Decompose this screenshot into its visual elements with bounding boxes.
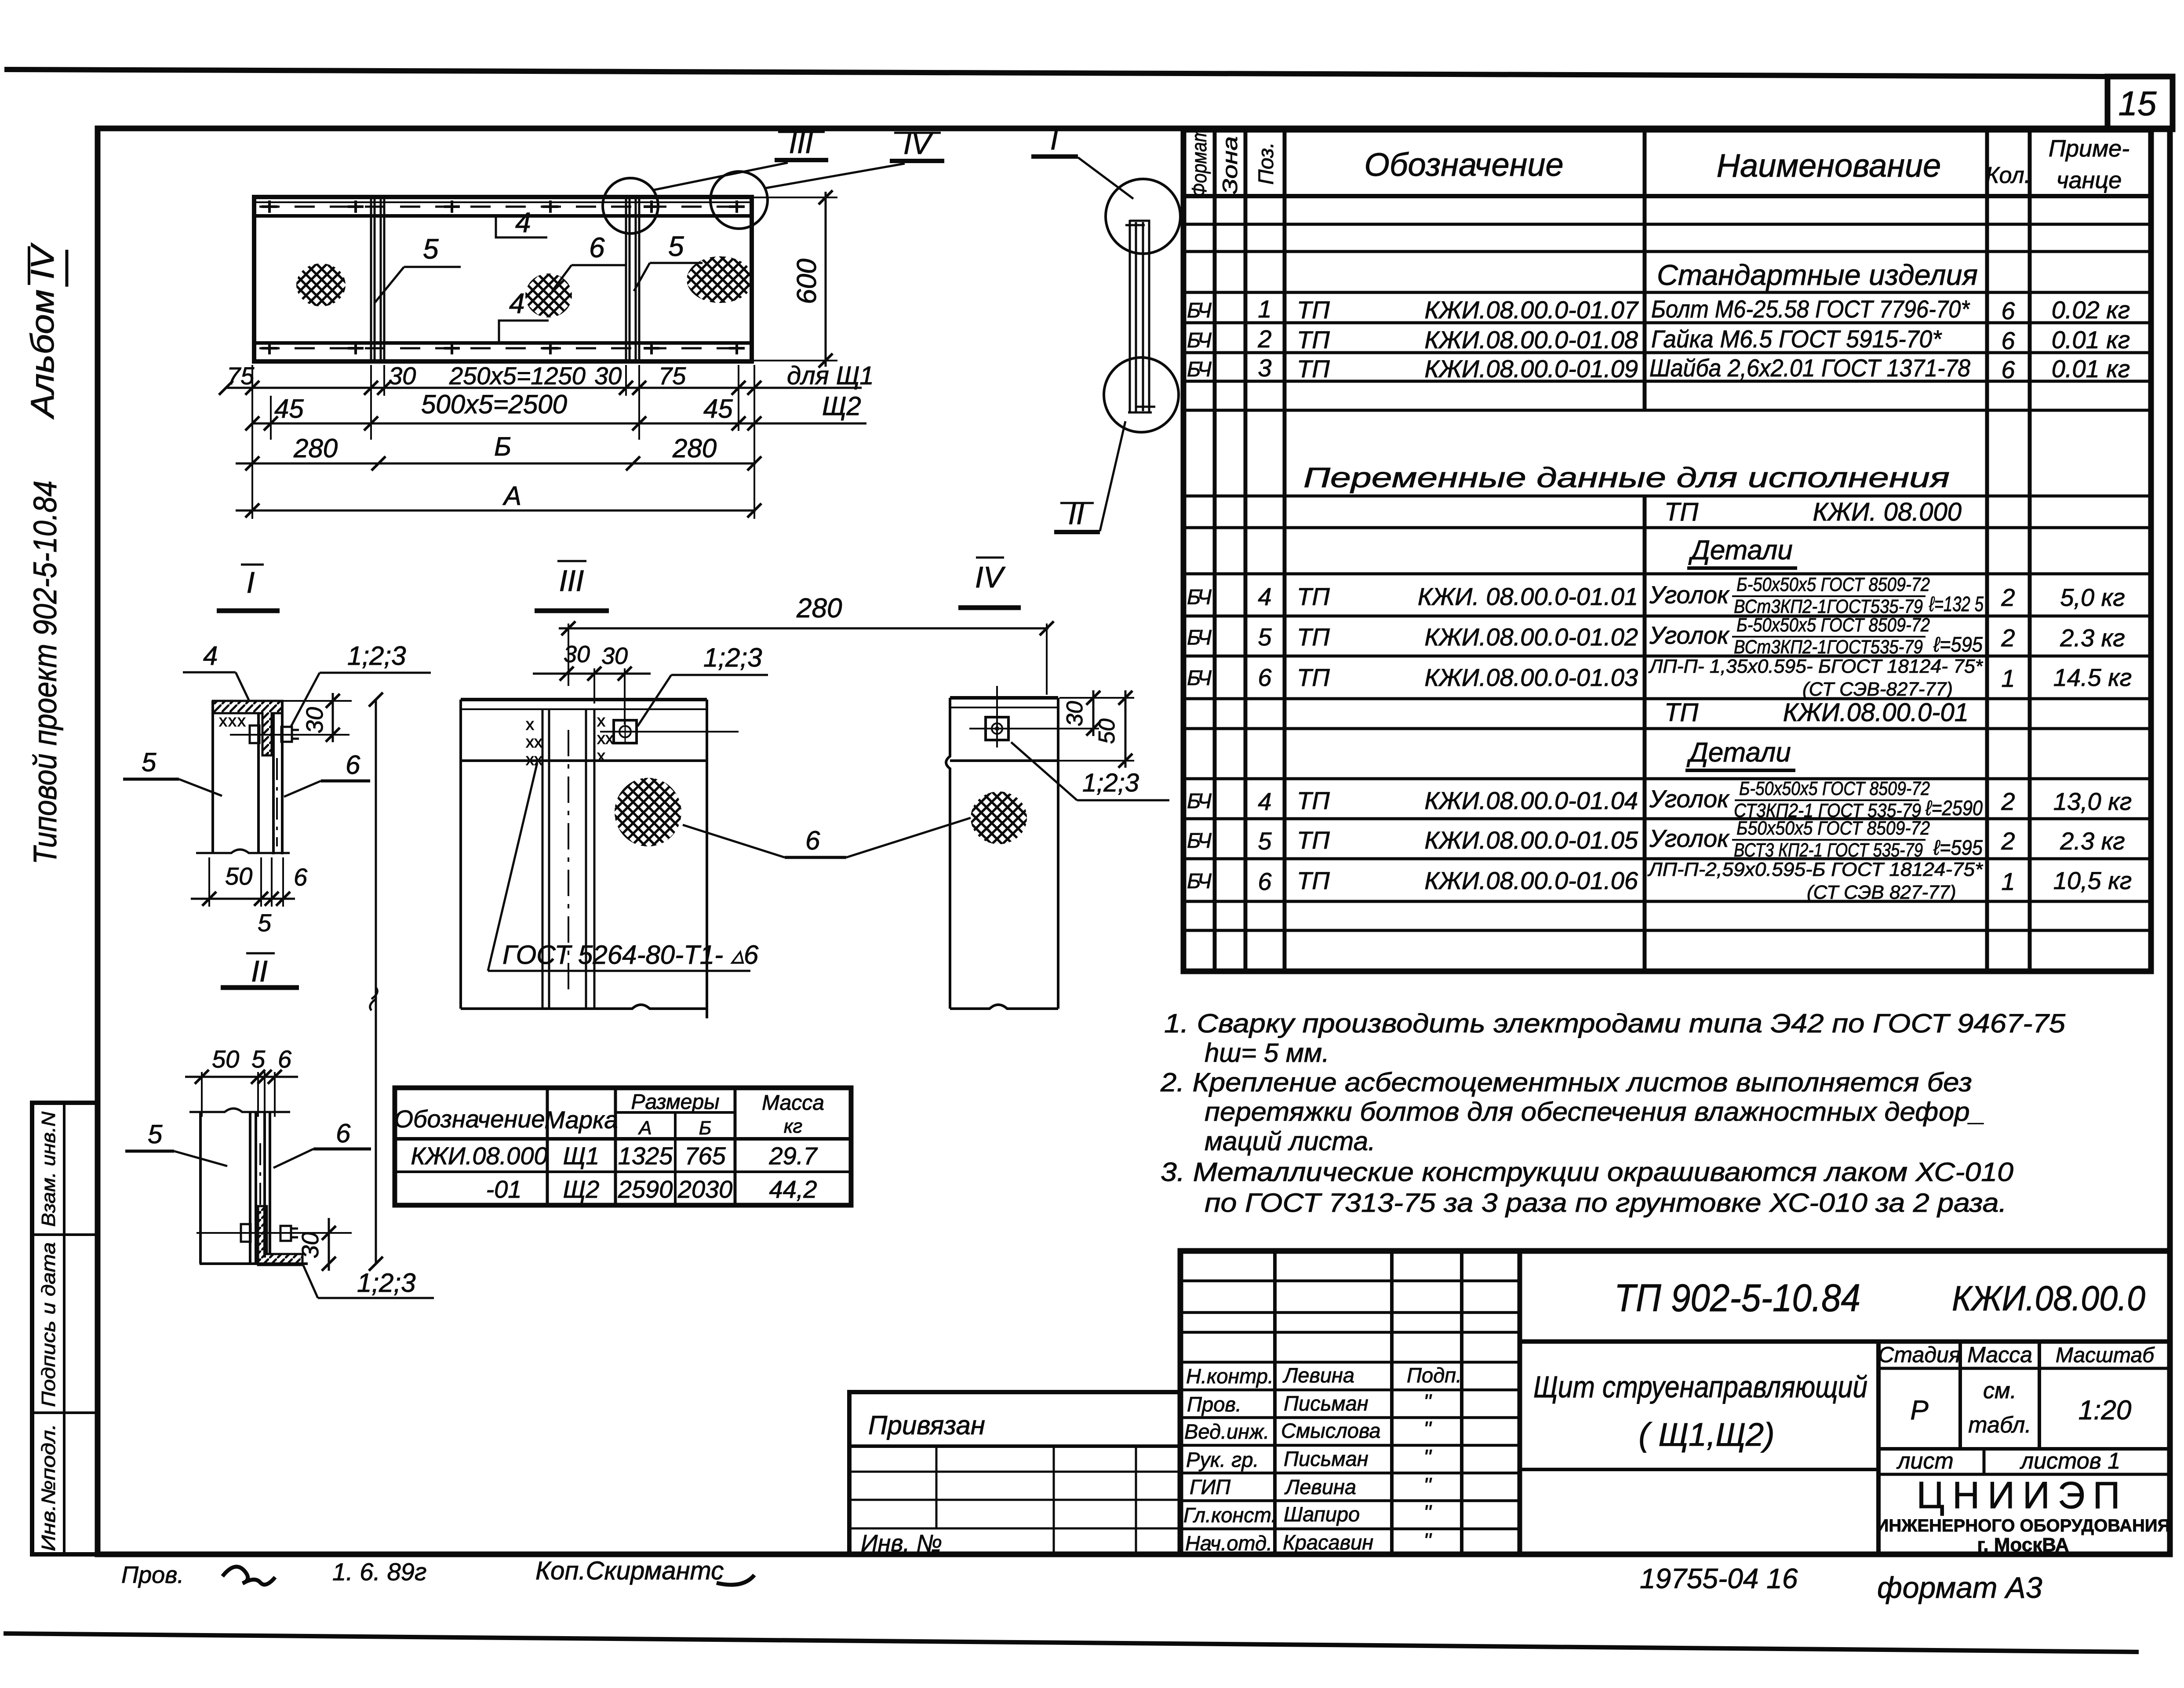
svg-text:ʹʹ: ʹʹ (1423, 1501, 1432, 1524)
svg-text:Коп.Скирмантс: Коп.Скирмантс (535, 1557, 724, 1585)
svg-text:4: 4 (203, 641, 218, 671)
svg-text:Р: Р (1910, 1395, 1928, 1426)
svg-text:( Щ1,Щ2): ( Щ1,Щ2) (1638, 1416, 1774, 1453)
svg-text:30: 30 (297, 1232, 324, 1258)
svg-text:Шапиро: Шапиро (1284, 1502, 1360, 1526)
svg-text:1:20: 1:20 (2078, 1395, 2132, 1426)
svg-text:Привязан: Привязан (868, 1411, 985, 1440)
svg-text:50: 50 (1094, 718, 1120, 744)
svg-text:19755-04 16: 19755-04 16 (1640, 1563, 1798, 1594)
svg-text:280: 280 (672, 434, 717, 463)
svg-text:29.7: 29.7 (769, 1142, 818, 1170)
svg-text:5: 5 (1258, 623, 1272, 651)
svg-text:5,0 кг: 5,0 кг (2060, 583, 2125, 611)
svg-text:г. МоскВА: г. МоскВА (1977, 1534, 2069, 1556)
svg-text:Б-50х50х5 ГОСТ 8509-72: Б-50х50х5 ГОСТ 8509-72 (1736, 614, 1930, 636)
svg-text:50: 50 (212, 1045, 239, 1073)
svg-text:5: 5 (668, 230, 684, 262)
svg-text:5: 5 (148, 1119, 163, 1149)
svg-text:30: 30 (564, 641, 590, 667)
svg-text:БЧ: БЧ (1187, 829, 1212, 853)
svg-text:ТП: ТП (1297, 623, 1330, 651)
svg-text:КЖИ.08.00.0-01.05: КЖИ.08.00.0-01.05 (1424, 826, 1638, 854)
svg-text:45: 45 (703, 394, 733, 423)
svg-text:ТП: ТП (1297, 355, 1330, 383)
svg-text:4: 4 (509, 288, 525, 319)
svg-text:Формат: Формат (1187, 128, 1211, 197)
svg-text:2.3 кг: 2.3 кг (2060, 827, 2125, 855)
svg-text:Стандартные изделия: Стандартные изделия (1657, 259, 1978, 291)
svg-text:Кол.: Кол. (1986, 163, 2031, 188)
svg-text:ВСт3КП2-1ГОСТ535-79: ВСт3КП2-1ГОСТ535-79 (1734, 636, 1923, 658)
svg-text:Смыслова: Смыслова (1281, 1419, 1381, 1442)
svg-text:см.: см. (1983, 1378, 2017, 1404)
svg-text:1: 1 (1258, 295, 1271, 323)
svg-text:БЧ: БЧ (1187, 329, 1212, 352)
svg-text:75: 75 (227, 362, 255, 390)
svg-text:5: 5 (1258, 827, 1272, 855)
svg-text:2: 2 (2001, 827, 2015, 855)
svg-text:ТП: ТП (1297, 867, 1330, 894)
svg-text:ЛП-П-2,59х0.595-Б ГОСТ 18124-7: ЛП-П-2,59х0.595-Б ГОСТ 18124-75* (1647, 859, 1984, 880)
svg-text:Масштаб: Масштаб (2056, 1344, 2155, 1367)
svg-text:Б: Б (494, 432, 511, 461)
svg-text:ʹʹ: ʹʹ (1423, 1417, 1432, 1440)
svg-text:0.01 кг: 0.01 кг (2052, 355, 2130, 383)
svg-text:6: 6 (294, 863, 308, 891)
svg-text:600: 600 (792, 259, 822, 304)
svg-text:xxx: xxx (219, 712, 247, 730)
svg-text:Н.контр.: Н.контр. (1186, 1364, 1274, 1388)
svg-text:2030: 2030 (677, 1175, 733, 1203)
svg-text:x: x (526, 715, 534, 734)
svg-text:ℓ=2590: ℓ=2590 (1925, 797, 1983, 820)
svg-text:Типовой проект 902-5-10.84: Типовой проект 902-5-10.84 (27, 481, 63, 864)
svg-text:14.5 кг: 14.5 кг (2053, 664, 2132, 691)
svg-text:перетяжки болтов для обеспечен: перетяжки болтов для обеспечения влажнос… (1205, 1097, 1985, 1127)
svg-text:-01: -01 (486, 1175, 522, 1203)
svg-text:КЖИ.08.00.0-01.09: КЖИ.08.00.0-01.09 (1424, 355, 1638, 383)
svg-text:Б-50х50х5 ГОСТ 8509-72: Б-50х50х5 ГОСТ 8509-72 (1739, 778, 1930, 799)
svg-text:ТП: ТП (1297, 296, 1330, 324)
svg-text:ВСТ3 КП2-1 ГОСТ 535-79: ВСТ3 КП2-1 ГОСТ 535-79 (1734, 839, 1923, 861)
svg-text:Б50х50х5 ГОСТ 8509-72: Б50х50х5 ГОСТ 8509-72 (1736, 817, 1930, 839)
svg-text:Поз.: Поз. (1255, 142, 1278, 185)
svg-text:II: II (251, 955, 268, 988)
svg-text:Уголок: Уголок (1649, 785, 1730, 813)
svg-text:6: 6 (346, 750, 360, 780)
svg-text:Пров.: Пров. (121, 1562, 184, 1588)
svg-text:КЖИ. 08.000: КЖИ. 08.000 (1813, 498, 1962, 526)
svg-text:ТП: ТП (1664, 498, 1699, 526)
svg-text:Размеры: Размеры (631, 1090, 719, 1114)
svg-text:280: 280 (796, 593, 842, 623)
svg-text:2. Крепление асбестоцементных: 2. Крепление асбестоцементных листов вып… (1160, 1068, 1972, 1097)
svg-text:2: 2 (1257, 325, 1271, 353)
svg-text:БЧ: БЧ (1187, 299, 1212, 322)
svg-text:75: 75 (659, 362, 686, 390)
svg-text:30: 30 (1062, 701, 1088, 726)
svg-text:30: 30 (594, 362, 622, 390)
svg-text:чанце: чанце (2057, 167, 2122, 193)
svg-text:ИНЖЕНЕРНОГО ОБОРУДОВАНИЯ: ИНЖЕНЕРНОГО ОБОРУДОВАНИЯ (1876, 1516, 2170, 1535)
svg-text:xx: xx (526, 733, 542, 751)
svg-text:ТП: ТП (1297, 826, 1330, 854)
svg-text:Гайка М6.5 ГОСТ 5915-70*: Гайка М6.5 ГОСТ 5915-70* (1651, 325, 1942, 353)
svg-text:Щ2: Щ2 (563, 1175, 600, 1203)
svg-text:Масса: Масса (1967, 1342, 2032, 1367)
svg-text:4: 4 (1258, 787, 1271, 815)
svg-text:ЛП-П- 1,35х0.595- БГОСТ 18124-: ЛП-П- 1,35х0.595- БГОСТ 18124- 75* (1648, 656, 1984, 677)
svg-text:500х5=2500: 500х5=2500 (421, 390, 567, 419)
svg-text:кг: кг (784, 1116, 802, 1137)
svg-text:2: 2 (2001, 624, 2015, 652)
svg-text:1;2;3: 1;2;3 (357, 1268, 415, 1298)
svg-text:Наименование: Наименование (1717, 147, 1941, 184)
svg-text:Письман: Письман (1284, 1392, 1369, 1415)
svg-text:6: 6 (805, 826, 820, 855)
svg-text:15: 15 (2118, 84, 2157, 123)
svg-text:I: I (247, 566, 255, 599)
svg-text:Щ2: Щ2 (822, 391, 861, 421)
svg-text:КЖИ.08.00.0-01.04: КЖИ.08.00.0-01.04 (1424, 787, 1638, 814)
svg-text:0.01 кг: 0.01 кг (2052, 326, 2130, 354)
svg-text:БЧ: БЧ (1187, 870, 1212, 893)
svg-text:Б: Б (699, 1117, 712, 1139)
svg-text:КЖИ.08.00.0-01.03: КЖИ.08.00.0-01.03 (1424, 664, 1638, 691)
svg-text:2: 2 (2001, 787, 2015, 815)
svg-text:БЧ: БЧ (1187, 667, 1212, 690)
svg-text:КЖИ.08.00.0-01.08: КЖИ.08.00.0-01.08 (1424, 326, 1638, 354)
svg-text:КЖИ.08.00.0-01: КЖИ.08.00.0-01 (1783, 698, 1969, 727)
svg-text:ℓ=132 5: ℓ=132 5 (1929, 593, 1984, 616)
svg-text:1;2;3: 1;2;3 (1082, 769, 1139, 797)
svg-text:1. Сварку производить электр: 1. Сварку производить электродами типа Э… (1164, 1009, 2066, 1038)
svg-text:Нач.отд.: Нач.отд. (1185, 1531, 1272, 1555)
svg-text:4: 4 (515, 207, 531, 238)
svg-text:листов 1: листов 1 (2020, 1448, 2120, 1474)
svg-text:Масса: Масса (762, 1091, 824, 1115)
svg-text:4: 4 (1258, 583, 1271, 610)
svg-text:КЖИ.08.00.0-01.07: КЖИ.08.00.0-01.07 (1424, 296, 1638, 324)
svg-text:табл.: табл. (1968, 1412, 2031, 1438)
svg-text:30: 30 (601, 643, 628, 669)
svg-text:БЧ: БЧ (1187, 626, 1212, 649)
svg-text:3: 3 (1258, 354, 1271, 382)
svg-text:Взам. инв.N: Взам. инв.N (38, 1112, 59, 1227)
svg-text:Письман: Письман (1284, 1447, 1369, 1470)
svg-text:3. Металлические конструкции: 3. Металлические конструкции окрашиваютс… (1161, 1157, 2013, 1187)
svg-text:1: 1 (2001, 664, 2015, 692)
svg-text:Подпись и дата: Подпись и дата (38, 1242, 59, 1407)
svg-text:30: 30 (389, 362, 416, 390)
svg-text:50: 50 (225, 862, 252, 890)
svg-text:Марка: Марка (544, 1106, 618, 1134)
svg-text:45: 45 (274, 394, 304, 423)
svg-text:Приме-: Приме- (2049, 135, 2129, 162)
svg-text:ʹʹ: ʹʹ (1423, 1473, 1432, 1497)
svg-text:ТП: ТП (1664, 698, 1699, 727)
svg-text:2590: 2590 (618, 1175, 673, 1203)
svg-text:(СТ СЭВ-827-77): (СТ СЭВ-827-77) (1802, 678, 1953, 700)
svg-text:Вед.инж.: Вед.инж. (1184, 1420, 1269, 1443)
svg-text:6: 6 (1258, 664, 1272, 691)
svg-text:БЧ: БЧ (1187, 790, 1212, 813)
svg-text:5: 5 (258, 909, 272, 937)
svg-text:(СТ СЭВ 827-77): (СТ СЭВ 827-77) (1807, 882, 1956, 903)
svg-text:6: 6 (589, 232, 605, 263)
svg-text:hш= 5 мм.: hш= 5 мм. (1205, 1038, 1329, 1068)
svg-text:Левина: Левина (1284, 1475, 1356, 1498)
svg-text:формат А3: формат А3 (1877, 1571, 2042, 1604)
svg-text:250х5=1250: 250х5=1250 (449, 362, 586, 390)
svg-text:КЖИ.08.00.0: КЖИ.08.00.0 (1952, 1279, 2145, 1318)
svg-text:Переменные данные для исполн: Переменные данные для исполнения (1303, 462, 1950, 493)
svg-text:КЖИ.08.00.0-01.02: КЖИ.08.00.0-01.02 (1424, 623, 1638, 651)
svg-text:Гл.конст.: Гл.конст. (1183, 1503, 1277, 1527)
svg-text:Шайба 2,6х2.01 ГОСТ 1371-78: Шайба 2,6х2.01 ГОСТ 1371-78 (1649, 354, 1970, 382)
svg-text:xx: xx (526, 751, 542, 769)
svg-text:ГОСТ 5264-80-Т1- ▵6: ГОСТ 5264-80-Т1- ▵6 (502, 940, 759, 970)
svg-text:Щ1: Щ1 (563, 1142, 600, 1170)
svg-text:2: 2 (2001, 583, 2015, 611)
svg-text:ʹʹ: ʹʹ (1423, 1529, 1432, 1552)
svg-text:КЖИ.08.00.0-01.06: КЖИ.08.00.0-01.06 (1424, 867, 1638, 894)
svg-text:А: А (502, 481, 521, 510)
svg-text:2.3 кг: 2.3 кг (2060, 624, 2125, 652)
svg-text:6: 6 (1258, 868, 1272, 895)
svg-text:30: 30 (302, 707, 328, 733)
svg-text:ℓ=595: ℓ=595 (1933, 633, 1983, 656)
svg-text:ТП: ТП (1297, 583, 1330, 610)
svg-text:10,5 кг: 10,5 кг (2053, 867, 2132, 894)
svg-text:КЖИ. 08.00.0-01.01: КЖИ. 08.00.0-01.01 (1418, 583, 1638, 610)
svg-text:Б-50х50х5 ГОСТ 8509-72: Б-50х50х5 ГОСТ 8509-72 (1736, 574, 1930, 595)
svg-text:для Щ1: для Щ1 (787, 361, 874, 390)
svg-text:x: x (597, 712, 605, 730)
svg-text:БЧ: БЧ (1187, 586, 1212, 609)
svg-text:ТП: ТП (1297, 326, 1330, 354)
svg-text:x: x (597, 747, 605, 766)
svg-text:6: 6 (336, 1119, 351, 1148)
svg-text:1325: 1325 (618, 1142, 673, 1170)
svg-text:ТП: ТП (1297, 664, 1330, 691)
svg-text:Уголок: Уголок (1649, 581, 1730, 609)
svg-text:1. 6. 89г: 1. 6. 89г (332, 1558, 426, 1586)
svg-text:1;2;3: 1;2;3 (347, 641, 406, 671)
svg-text:5: 5 (142, 747, 157, 777)
svg-text:III: III (559, 564, 584, 598)
svg-text:А: А (637, 1117, 652, 1139)
svg-text:Уголок: Уголок (1649, 824, 1730, 852)
svg-text:Инв. №: Инв. № (861, 1530, 942, 1557)
svg-text:ℓ=595: ℓ=595 (1933, 836, 1983, 860)
svg-text:765: 765 (684, 1142, 726, 1170)
svg-text:IV: IV (975, 561, 1006, 594)
svg-text:Красавин: Красавин (1283, 1531, 1373, 1554)
svg-text:ТП 902-5-10.84: ТП 902-5-10.84 (1614, 1276, 1860, 1320)
svg-text:1;2;3: 1;2;3 (703, 643, 762, 672)
svg-text:5: 5 (251, 1045, 266, 1073)
svg-text:0.02 кг: 0.02 кг (2052, 296, 2130, 324)
svg-text:Пров.: Пров. (1187, 1393, 1241, 1416)
svg-text:ʹʹ: ʹʹ (1423, 1445, 1432, 1469)
svg-text:13,0 кг: 13,0 кг (2053, 787, 2132, 815)
svg-text:6: 6 (278, 1045, 292, 1073)
svg-text:5: 5 (423, 233, 439, 265)
svg-text:БЧ: БЧ (1187, 358, 1212, 381)
svg-text:ТП: ТП (1297, 787, 1330, 814)
svg-text:Болт М6-25.58 ГОСТ 7796-70*: Болт М6-25.58 ГОСТ 7796-70* (1651, 295, 1970, 323)
svg-text:ʹʹ: ʹʹ (1423, 1390, 1432, 1413)
svg-text:лист: лист (1896, 1448, 1954, 1474)
svg-text:Детали: Детали (1688, 535, 1793, 565)
svg-text:280: 280 (293, 434, 338, 463)
svg-text:маций листа.: маций листа. (1205, 1127, 1376, 1156)
svg-text:Детали: Детали (1686, 737, 1791, 768)
svg-text:6: 6 (2001, 356, 2015, 383)
svg-text:Обозначение: Обозначение (1364, 146, 1563, 183)
svg-text:6: 6 (2001, 327, 2015, 354)
svg-text:Левина: Левина (1282, 1364, 1354, 1387)
svg-text:Инв.№подл.: Инв.№подл. (38, 1424, 59, 1551)
svg-text:1: 1 (2001, 868, 2015, 895)
svg-text:по ГОСТ 7313-75 за 3 раза по г: по ГОСТ 7313-75 за 3 раза по грунтовке Х… (1205, 1188, 2007, 1218)
svg-text:ЦНИИЭП: ЦНИИЭП (1917, 1474, 2128, 1517)
svg-text:Зона: Зона (1218, 136, 1241, 194)
svg-text:КЖИ.08.000: КЖИ.08.000 (411, 1142, 547, 1170)
svg-text:Щит струенаправляющий: Щит струенаправляющий (1533, 1370, 1867, 1404)
svg-text:6: 6 (2001, 297, 2015, 324)
svg-text:Рук. гр.: Рук. гр. (1186, 1448, 1259, 1471)
svg-text:Обозначение: Обозначение (394, 1105, 545, 1133)
svg-text:Уголок: Уголок (1649, 621, 1730, 649)
svg-text:ГИП: ГИП (1190, 1475, 1231, 1498)
svg-text:44,2: 44,2 (769, 1175, 817, 1203)
svg-text:Стадия: Стадия (1878, 1342, 1960, 1367)
svg-text:Подп.: Подп. (1407, 1364, 1462, 1387)
